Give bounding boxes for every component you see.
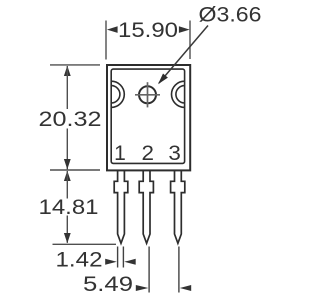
- mounting hole circle: [139, 86, 156, 103]
- dim 5.49 right-pointing arrow: [136, 285, 149, 291]
- shared mid tick: [50, 169, 100, 171]
- dim 14.81 line upper: [66, 171, 68, 199]
- dim 15.90 right arrow: [179, 26, 190, 33]
- svg-text:5.49: 5.49: [83, 273, 133, 296]
- dim 14.81 line lower: [66, 216, 68, 243]
- dim 1.42 right-pointing arrow: [105, 259, 117, 265]
- svg-text:20.32: 20.32: [39, 108, 102, 131]
- dim 15.90 left extension line: [105, 21, 107, 60]
- right notch outer arc: [172, 81, 185, 107]
- svg-text:2: 2: [142, 142, 155, 165]
- dim 14.81 up arrow: [64, 171, 71, 181]
- dim 20.32 top tick: [50, 64, 100, 66]
- package body inner rim: [111, 69, 184, 163]
- dim 14.81 down arrow: [64, 233, 71, 243]
- dim 15.90 left arrow: [107, 26, 118, 33]
- hole label leader line: [159, 26, 208, 84]
- pin 2: [139, 171, 153, 244]
- left notch outer arc: [111, 81, 124, 107]
- svg-text:3: 3: [168, 142, 181, 165]
- pin 1: [114, 171, 128, 244]
- svg-text:15.90: 15.90: [118, 19, 178, 42]
- dim 1.42 left-pointing arrow: [124, 259, 136, 265]
- svg-text:1: 1: [114, 142, 126, 165]
- dim 15.90 right extension line: [189, 21, 191, 60]
- dim 20.32 line lower: [66, 129, 68, 170]
- hole crosshair vertical: [147, 82, 149, 107]
- dim 20.32 down arrow: [64, 159, 71, 169]
- hole label leader arrowhead: [158, 74, 168, 85]
- svg-text:Ø3.66: Ø3.66: [199, 3, 262, 26]
- dim 5.49 left extension line: [148, 247, 150, 293]
- dim 20.32 up arrow: [64, 66, 71, 76]
- dim 1.42 left extension line: [117, 247, 119, 268]
- pin 3: [171, 171, 185, 244]
- right notch inner arc: [176, 86, 185, 103]
- dim 1.42 right extension line: [122, 247, 124, 268]
- svg-text:1.42: 1.42: [56, 248, 103, 271]
- left notch inner arc: [111, 86, 120, 103]
- package body outer outline: [107, 65, 190, 170]
- svg-text:14.81: 14.81: [39, 196, 99, 219]
- dim 5.49 left-pointing arrow: [180, 285, 191, 291]
- dim 5.49 right extension line: [178, 247, 180, 293]
- hole crosshair horizontal: [135, 94, 160, 96]
- dim 14.81 bottom tick: [53, 243, 117, 245]
- dim 20.32 line upper: [66, 66, 68, 109]
